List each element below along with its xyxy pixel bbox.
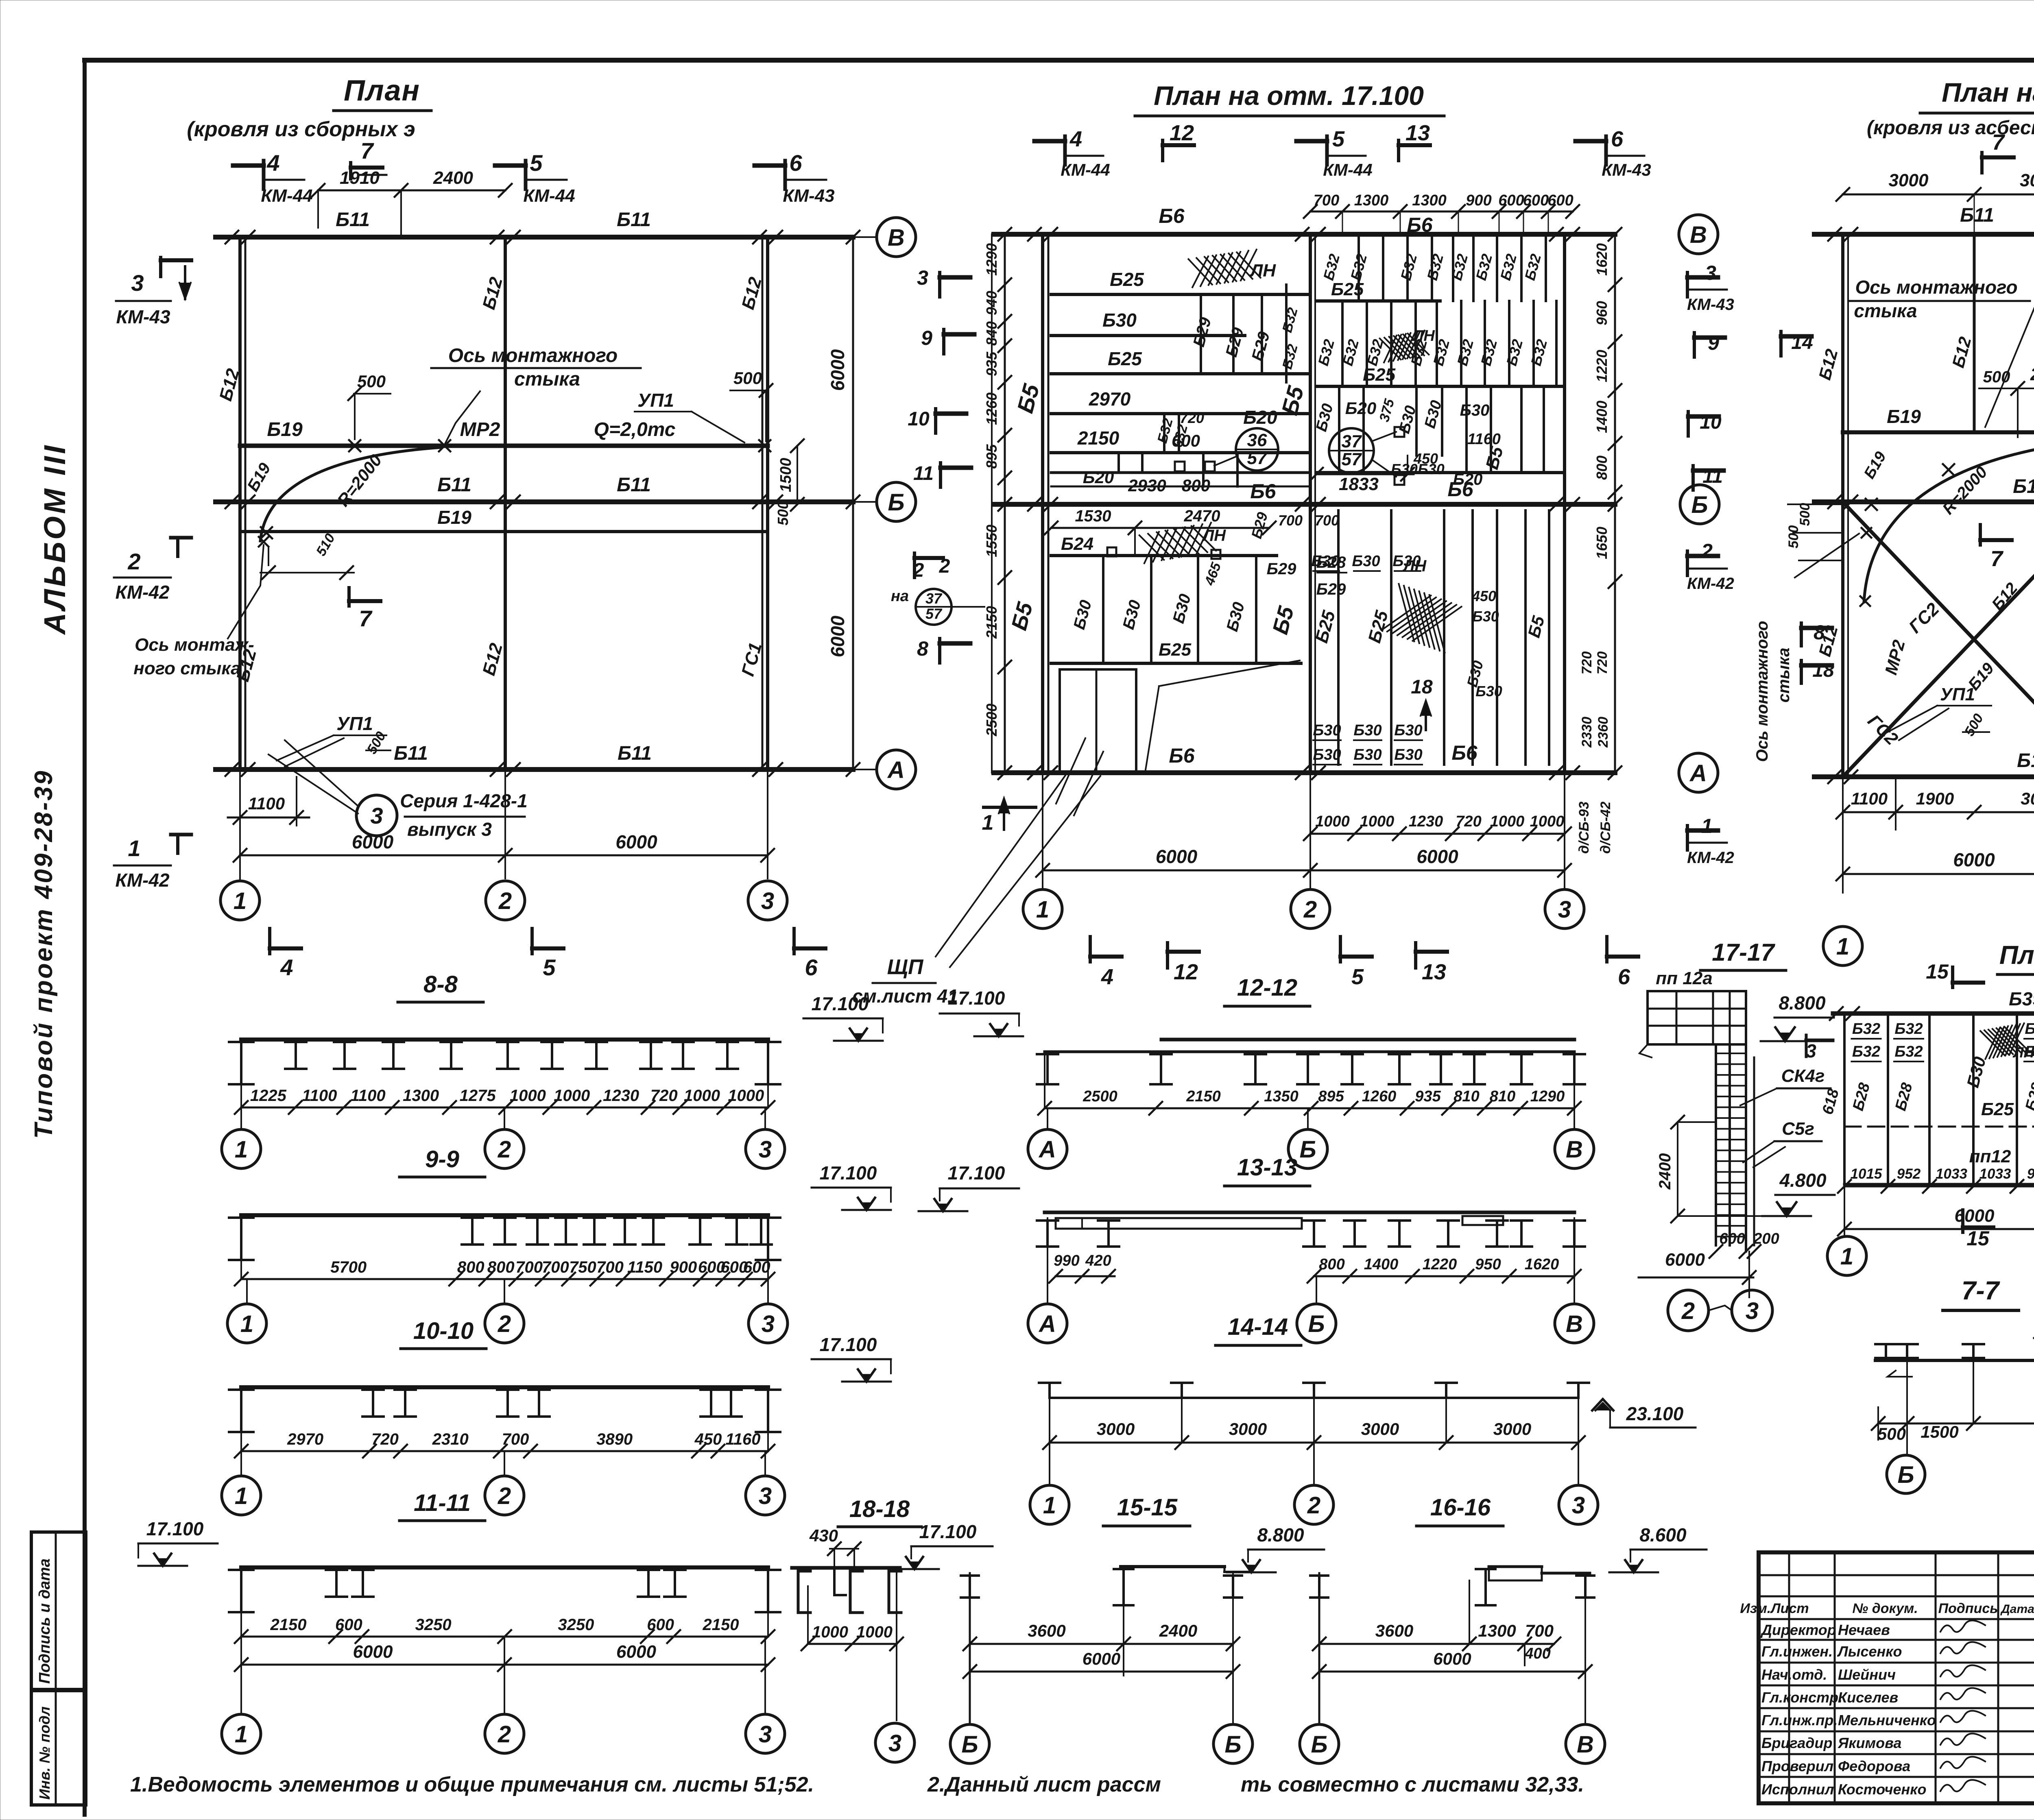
svg-text:1300: 1300 [403,1087,439,1105]
LN hatch patch upper-left [1188,250,1260,288]
svg-text:Ось монтажного: Ось монтажного [1753,621,1771,762]
svg-text:Б6: Б6 [1159,205,1185,227]
section 10-10 beam [241,1385,768,1389]
side markers 2 2 and na 37/57 circle and 8 [913,553,916,578]
svg-text:10: 10 [1700,412,1722,433]
svg-text:1000: 1000 [1530,813,1565,830]
svg-text:пп12: пп12 [1969,1146,2011,1166]
svg-text:План на отм. 17.100: План на отм. 17.100 [1154,81,1424,111]
svg-text:Б32: Б32 [1852,1020,1880,1038]
svg-text:700: 700 [1278,512,1303,529]
svg-text:Б19: Б19 [267,419,303,440]
svg-text:3: 3 [1705,262,1716,284]
svg-text:2310: 2310 [432,1430,469,1448]
svg-text:2970: 2970 [1089,388,1131,410]
marker 3 at ladder [1805,1035,1808,1057]
svg-text:1000: 1000 [684,1087,720,1105]
svg-text:А: А [1038,1136,1056,1163]
svg-text:1100: 1100 [302,1087,337,1105]
svg-text:17.100: 17.100 [919,1521,977,1542]
svg-text:2: 2 [498,1721,511,1748]
section 16-16 circles [1300,1724,1339,1763]
svg-text:В: В [1566,1136,1583,1163]
svg-text:А: А [887,757,905,783]
svg-text:Б30: Б30 [1472,608,1499,625]
svg-text:895: 895 [1318,1088,1344,1105]
svg-text:Подпись: Подпись [1938,1601,1998,1616]
svg-text:1000: 1000 [1490,813,1525,830]
svg-text:15: 15 [1926,960,1949,983]
svg-text:2: 2 [498,1311,511,1337]
beam line A [994,770,1615,775]
svg-text:А: А [1689,760,1707,787]
svg-text:Гл.констр.: Гл.констр. [1761,1689,1842,1706]
svg-text:600: 600 [335,1616,362,1634]
svg-text:Киселев: Киселев [1838,1689,1898,1706]
svg-text:2: 2 [1701,540,1713,562]
marker 7 top of right plan [1980,153,1984,173]
svg-text:700: 700 [1314,192,1339,209]
axis circle V middle [1679,215,1718,254]
svg-text:1: 1 [1043,1492,1056,1519]
section 15-15 drawing [1121,1565,1224,1568]
svg-text:952: 952 [2027,1166,2034,1182]
beam line V [994,232,1615,237]
svg-text:1650: 1650 [1593,527,1610,559]
svg-text:720: 720 [1595,652,1610,675]
svg-text:5700: 5700 [330,1258,367,1276]
svg-text:Б: Б [1897,1462,1914,1488]
beam line V right plan [1814,232,2034,237]
circle 37/57 with arrows [1329,428,1374,473]
svg-text:Ось монтажного: Ось монтажного [1855,277,2017,298]
svg-text:2150: 2150 [270,1616,307,1634]
svg-text:Б30: Б30 [1394,722,1422,739]
svg-text:Б: Б [961,1731,978,1758]
arc R=2000 right plan [1864,447,2034,602]
svg-text:6000: 6000 [353,1642,393,1662]
svg-text:900: 900 [1466,192,1491,209]
svg-text:700: 700 [1525,1621,1554,1640]
svg-text:2: 2 [913,560,924,581]
svg-text:4.800: 4.800 [1779,1170,1827,1191]
svg-text:Б: Б [1308,1311,1325,1337]
section marker 4 bottom [268,929,271,954]
svg-text:Лысенко: Лысенко [1837,1643,1902,1660]
crane beam line MR2 [240,444,768,448]
svg-text:18: 18 [1411,676,1433,698]
svg-text:1: 1 [235,1483,248,1509]
svg-text:План на отм. 23.100: План на отм. 23.100 [1942,77,2034,107]
svg-text:800: 800 [457,1258,484,1276]
svg-text:Б32: Б32 [2025,1020,2034,1038]
top dimension row 700 1300 1300 900 600 600 600 [1310,211,1573,213]
axis circle B middle [1680,485,1719,524]
middle plan top marker 6 KM-43 [1604,136,1608,165]
svg-text:3250: 3250 [415,1616,452,1634]
section 16-16 dims [1319,1643,1554,1645]
svg-text:Б30: Б30 [1313,722,1341,739]
svg-text:1: 1 [234,888,247,914]
svg-text:Б30: Б30 [1418,461,1445,477]
marker 1 flag left of axis A [984,806,1036,809]
middle axis circle 2 [1291,889,1330,929]
svg-text:430: 430 [809,1526,838,1545]
svg-text:1300: 1300 [1412,192,1447,209]
svg-text:9: 9 [1708,331,1719,354]
title block outer frame [1759,1552,2034,1803]
svg-text:КМ-43: КМ-43 [1602,160,1651,179]
right vertical dim column of middle plan [1614,234,1616,504]
section 11-11 dims [241,1636,768,1638]
brace diagonals bottom left bay [1843,502,2034,777]
svg-text:17-17: 17-17 [1712,939,1775,966]
svg-text:2.Данный лист рассм: 2.Данный лист рассм [927,1773,1161,1796]
beam line B right plan [1814,499,2034,504]
svg-text:Якимова: Якимова [1838,1735,1901,1751]
svg-text:2360: 2360 [1595,717,1611,748]
svg-text:2150: 2150 [1077,427,1120,449]
svg-text:6000: 6000 [615,831,657,852]
svg-text:3: 3 [1558,896,1571,923]
section 7-7 columns [1875,1357,1897,1359]
svg-text:700: 700 [515,1258,543,1276]
svg-text:КМ-44: КМ-44 [1323,160,1373,179]
series note circle 3 [356,795,397,836]
marker 3/KM-43 far left [161,258,191,262]
svg-text:14: 14 [1791,332,1813,353]
svg-text:Б6: Б6 [1407,214,1433,236]
svg-text:1: 1 [235,1721,248,1748]
svg-text:1300: 1300 [1478,1621,1516,1640]
svg-text:УП1: УП1 [637,390,674,411]
svg-text:1000: 1000 [1360,813,1395,830]
svg-text:Проверил: Проверил [1761,1758,1833,1774]
svg-text:720: 720 [1456,813,1481,830]
svg-text:9: 9 [921,327,932,349]
svg-text:6: 6 [1618,965,1630,989]
svg-text:1: 1 [982,811,994,835]
axis circle V [768,236,877,238]
svg-text:Бригадир: Бригадир [1761,1735,1832,1751]
svg-text:2970: 2970 [287,1430,323,1448]
section 8-8 axis circles [240,1107,242,1129]
svg-text:17.100: 17.100 [948,1162,1005,1184]
svg-text:Б11: Б11 [2017,750,2034,772]
svg-text:2: 2 [1303,896,1317,923]
svg-text:ЛН: ЛН [1249,261,1276,281]
svg-text:1620: 1620 [1593,243,1610,276]
svg-text:Подпись и дата: Подпись и дата [36,1558,53,1684]
dim row below axis A of middle plan [1310,833,1565,835]
svg-text:6: 6 [805,955,818,980]
svg-text:Нач.отд.: Нач.отд. [1761,1666,1827,1683]
svg-text:стыка: стыка [1854,300,1917,321]
svg-text:Изм.Лист: Изм.Лист [1740,1601,1809,1616]
svg-text:720: 720 [1579,652,1595,675]
svg-text:990: 990 [1054,1252,1079,1269]
crane line B19 right plan [1843,430,2034,434]
beam line axis V horizontal [216,235,853,240]
arc R=2000 montage joint [260,447,441,541]
axis 1 line [1041,234,1044,773]
svg-text:420: 420 [1085,1252,1111,1269]
svg-text:Типовой проект 409-28-39: Типовой проект 409-28-39 [30,769,58,1139]
section marker 4/KM-44 top [262,161,266,189]
svg-text:Гл.инжен.: Гл.инжен. [1761,1643,1833,1660]
svg-text:2400: 2400 [433,168,473,188]
section 17-17 ladder rails and rungs [1715,1044,1717,1245]
svg-text:Б30: Б30 [1102,310,1137,331]
label S5g leader [1753,1147,1785,1167]
svg-text:1300: 1300 [1354,192,1389,209]
svg-text:3000: 3000 [1493,1419,1531,1439]
svg-text:Б: Б [888,489,904,516]
svg-text:1900: 1900 [1916,789,1954,808]
svg-text:810: 810 [1453,1088,1479,1105]
svg-text:5: 5 [1351,965,1364,989]
marker 14 left [1779,331,1783,356]
svg-text:Q=2,0тс: Q=2,0тс [594,419,676,440]
svg-text:Б30: Б30 [1394,746,1422,763]
svg-text:16-16: 16-16 [1430,1494,1491,1521]
sheet border frame [85,58,2034,63]
svg-text:1: 1 [235,1136,248,1163]
svg-text:ЛН: ЛН [1402,557,1427,575]
svg-text:Б39: Б39 [2009,988,2034,1009]
section 13-13 circles [1047,1276,1048,1304]
svg-text:450: 450 [694,1430,722,1448]
plan 8.800 dashed mid line [1844,1126,2034,1128]
lower-left bay B24 strip [1051,554,1277,557]
upper-left bay horizontal beams [1051,293,1308,296]
svg-text:1160: 1160 [1467,431,1501,448]
section 12-12 circles [1047,1108,1048,1129]
top dimension row 1910 2400 [318,190,505,192]
svg-text:План на отм.8.800: План на отм.8.800 [1999,940,2034,970]
svg-text:2150: 2150 [1186,1088,1221,1105]
upper-right bay vertical strips row1 [1357,234,1360,301]
svg-text:900: 900 [670,1258,697,1276]
top dimension row 3000 x4 [1843,194,2034,196]
dim 1100 bottom [239,789,241,826]
svg-text:1400: 1400 [1364,1256,1399,1273]
svg-text:КМ-42: КМ-42 [1687,849,1734,867]
svg-text:СК4г: СК4г [1781,1066,1825,1086]
svg-text:выпуск 3: выпуск 3 [407,819,492,840]
svg-text:Гл.инж.пр.: Гл.инж.пр. [1761,1712,1838,1728]
svg-text:Дата: Дата [2000,1602,2034,1616]
svg-text:Б32: Б32 [1894,1043,1923,1060]
svg-text:2: 2 [127,549,140,574]
svg-text:17.100: 17.100 [820,1162,877,1184]
svg-text:Б32: Б32 [1852,1043,1880,1060]
left margin box Podpis i data [31,1532,86,1689]
axis 2 line [1309,234,1312,773]
svg-text:2930: 2930 [1128,476,1166,495]
upper-right bay vertical strips row2 [1341,301,1344,386]
svg-text:800: 800 [487,1258,515,1276]
svg-text:(кровля из асбестоцементных пл: (кровля из асбестоцементных плит) [1867,117,2034,139]
svg-text:1000: 1000 [812,1623,848,1641]
svg-text:3: 3 [762,1311,775,1337]
svg-text:14-14: 14-14 [1228,1314,1288,1340]
marker 2/KM-42 left [171,536,191,540]
svg-text:1500: 1500 [1921,1422,1958,1441]
svg-text:935: 935 [1415,1088,1441,1105]
svg-text:Шейнич: Шейнич [1838,1666,1896,1683]
svg-text:10-10: 10-10 [413,1318,474,1344]
svg-text:2400: 2400 [1656,1153,1674,1190]
section marker 6/KM-43 top [783,161,787,189]
svg-text:750: 750 [569,1258,596,1276]
svg-text:6000: 6000 [1433,1649,1471,1668]
svg-text:13: 13 [1422,960,1446,984]
svg-text:Б: Б [1311,1731,1327,1758]
svg-text:Нечаев: Нечаев [1838,1622,1890,1638]
axis line 2 vertical [504,237,507,769]
section 13-13 beam and slab [1045,1211,1574,1214]
svg-text:17.100: 17.100 [820,1334,877,1355]
plan 8.800 bottom markers 15 16 17 17 [1961,1210,1964,1232]
section 11-11 extra 6000 6000 row [241,1664,768,1666]
plan 8.800 top beam line [1833,1011,2034,1016]
svg-text:Б30: Б30 [1311,553,1339,570]
svg-text:(кровля из сборных э: (кровля из сборных э [187,118,415,141]
svg-text:КМ-43: КМ-43 [116,306,170,327]
svg-text:7-7: 7-7 [1962,1276,2001,1305]
section 18-18 beam and C-profiles [792,1566,900,1570]
svg-text:37: 37 [1342,432,1362,451]
svg-text:Б19: Б19 [437,507,471,528]
svg-text:1230: 1230 [1409,813,1443,830]
axis 1 line right plan [1841,234,1844,777]
svg-text:1100: 1100 [1851,789,1888,808]
svg-text:4: 4 [280,955,293,980]
svg-text:С5г: С5г [1782,1119,1814,1139]
svg-text:3000: 3000 [1361,1419,1399,1439]
svg-text:15-15: 15-15 [1117,1494,1178,1521]
svg-text:2: 2 [1307,1492,1320,1519]
svg-text:Федорова: Федорова [1838,1758,1910,1774]
svg-text:стыка: стыка [1775,648,1793,703]
svg-text:200: 200 [1753,1230,1779,1247]
svg-text:17.100: 17.100 [146,1518,204,1539]
svg-text:Б25: Б25 [1108,348,1142,369]
svg-text:Б30: Б30 [1313,746,1341,763]
svg-text:952: 952 [1897,1166,1921,1182]
section marker 5 bottom [530,929,534,954]
svg-text:950: 950 [1475,1256,1501,1273]
middle plan top markers 5 KM-44 and 13 [1325,136,1329,165]
bottom dimension row 6000 6000 [240,854,768,857]
svg-text:1: 1 [1840,1243,1853,1270]
svg-text:500: 500 [1797,503,1813,526]
svg-text:Директор: Директор [1760,1622,1836,1638]
section 9-9 dims [241,1278,768,1280]
svg-text:Б30: Б30 [1352,553,1380,570]
svg-text:960: 960 [1593,301,1610,325]
svg-text:2: 2 [498,888,512,914]
svg-text:4: 4 [266,150,279,176]
svg-text:В: В [888,225,905,251]
plan 8.800 6000 dims [1844,1228,2034,1230]
axis circle A middle [1679,753,1718,792]
svg-text:3000: 3000 [1097,1419,1135,1439]
svg-text:Б32: Б32 [1894,1020,1923,1038]
svg-text:1: 1 [1701,815,1713,837]
svg-text:3: 3 [1572,1492,1585,1519]
svg-text:3: 3 [370,803,383,828]
svg-text:1100: 1100 [351,1087,386,1105]
svg-text:1230: 1230 [603,1087,639,1105]
lower-right bay strips [1337,510,1340,765]
svg-text:4: 4 [1069,127,1082,151]
svg-text:500: 500 [1786,525,1801,549]
svg-text:Б11: Б11 [617,209,651,231]
section marker 7 top [349,163,352,179]
svg-text:720: 720 [371,1430,399,1448]
section 14-14 columns and line [1039,1382,1060,1384]
svg-text:37: 37 [925,590,943,607]
axis circle B [768,501,877,503]
upper-left bay short verticals [1200,294,1202,374]
svg-text:3000: 3000 [1889,170,1929,190]
svg-text:500: 500 [733,368,762,388]
right side marker 1 KM-42 bottom [1686,826,1689,850]
svg-text:ЛН: ЛН [2012,1044,2034,1061]
svg-text:600: 600 [1498,192,1524,209]
svg-text:57: 57 [1247,448,1268,468]
svg-text:810: 810 [1490,1088,1515,1105]
svg-text:11: 11 [913,463,934,484]
svg-text:КМ-42: КМ-42 [1687,575,1734,593]
svg-text:д/СБ-42: д/СБ-42 [1598,802,1613,854]
svg-text:д/СБ-93: д/СБ-93 [1576,802,1592,854]
svg-text:6000: 6000 [1156,846,1198,867]
svg-text:3890: 3890 [596,1430,633,1448]
svg-text:Б24: Б24 [1061,534,1093,554]
svg-text:3: 3 [131,270,144,296]
svg-text:3: 3 [1806,1040,1816,1061]
svg-text:Б30: Б30 [1460,401,1490,419]
svg-text:1000: 1000 [510,1087,546,1105]
side markers between plans 3 9 10 11 [938,272,941,297]
svg-text:Б11: Б11 [618,743,652,764]
section 14-14 level 23.100 [1592,1399,1613,1410]
svg-text:1000: 1000 [728,1087,764,1105]
svg-text:800: 800 [1319,1256,1344,1273]
svg-text:Б20: Б20 [1243,407,1277,428]
svg-text:600: 600 [743,1258,770,1276]
svg-text:36: 36 [1247,430,1267,450]
beam line axis A horizontal [216,767,853,772]
section 9-9 axis circles [246,1279,248,1304]
svg-text:Б30: Б30 [1475,683,1502,700]
svg-text:450: 450 [1471,588,1496,604]
svg-text:500: 500 [1877,1424,1906,1443]
svg-text:7: 7 [359,606,373,631]
section 15-15 circles [950,1724,989,1763]
svg-text:720: 720 [1180,410,1204,426]
svg-text:13: 13 [1405,121,1430,145]
svg-text:1.Ведомость элементов и общие: 1.Ведомость элементов и общие примечания… [130,1773,814,1796]
svg-text:800: 800 [1593,456,1610,480]
svg-text:на: на [891,588,909,605]
middle bottom markers 4 12 5 13 6 [1089,937,1092,962]
svg-text:ЛН: ЛН [1412,327,1435,344]
svg-text:№ докум.: № докум. [1852,1601,1918,1616]
